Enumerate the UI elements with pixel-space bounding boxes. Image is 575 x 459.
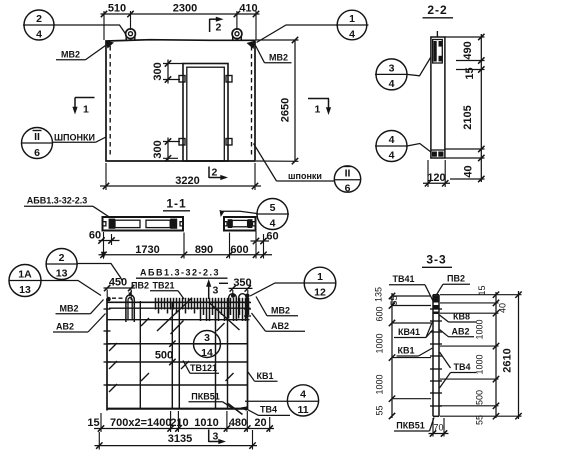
lifting loop left [126,29,136,39]
leader 5/4 [223,211,258,213]
diagonal brace right [209,302,240,330]
door opening [183,64,228,162]
svg-text:450: 450 [109,277,127,289]
svg-text:40: 40 [498,303,508,313]
section 2-2 right dims [480,34,482,182]
rebar cross ticks left edge [104,308,111,310]
left bar end notch [103,222,106,226]
svg-text:1730: 1730 [135,244,159,256]
svg-text:1А: 1А [18,269,32,281]
svg-text:13: 13 [56,268,68,280]
svg-text:АБВ1.3-32-2.3: АБВ1.3-32-2.3 [27,196,88,206]
section mark 1 left [75,97,95,99]
embed plate MB2 top-left corner [106,41,115,49]
svg-text:ШПОНКИ: ШПОНКИ [54,133,95,143]
section 1-1 right bar [224,217,256,231]
section 3-3 right dims [495,292,497,418]
svg-text:60: 60 [266,231,278,243]
svg-text:1: 1 [315,104,321,116]
svg-text:55: 55 [375,405,385,415]
svg-text:ТВ21: ТВ21 [152,281,174,291]
section 3-3 bar body [432,295,434,417]
svg-text:600: 600 [375,306,385,321]
svg-text:1000: 1000 [375,333,385,353]
section 1-1 dimensions [103,232,105,253]
svg-text:1000: 1000 [475,354,485,374]
svg-text:II: II [34,131,40,143]
svg-text:600: 600 [230,244,248,256]
svg-text:11: 11 [297,404,308,416]
section 1-1 left bar [103,217,184,231]
svg-text:300: 300 [152,62,164,80]
svg-text:480: 480 [229,417,247,429]
total dim 3135 [98,432,100,450]
svg-text:КВ1: КВ1 [398,346,415,356]
svg-text:ТВ121: ТВ121 [190,363,217,373]
callout II/6 left with label [22,128,53,159]
cage bottom dims [100,413,102,432]
callout 2/4 [24,10,54,40]
callout 2/13 [46,249,77,280]
svg-text:40: 40 [463,165,475,177]
callout 3/14 [194,331,221,358]
callout 5/4 [257,199,288,230]
svg-text:135: 135 [374,287,384,302]
svg-text:15: 15 [477,285,487,295]
svg-text:ПКВ51: ПКВ51 [191,392,219,402]
dim 300 lower at door [163,141,180,143]
svg-text:1010: 1010 [194,417,218,429]
svg-text:II: II [345,168,351,180]
embed plate MB2 top-right corner [247,41,256,50]
svg-text:ПКВ51: ПКВ51 [396,421,424,431]
svg-text:120: 120 [427,172,445,184]
svg-text:4: 4 [300,389,306,401]
svg-text:510: 510 [108,3,126,15]
svg-text:2: 2 [216,22,222,34]
section 3-3 left dims [391,293,393,418]
svg-text:410: 410 [239,3,257,15]
dim 350 [229,287,253,289]
svg-text:890: 890 [195,244,213,256]
section 2-2 panel body [431,37,445,158]
svg-text:4: 4 [389,78,395,90]
svg-text:6: 6 [345,183,351,195]
svg-text:3135: 3135 [168,433,192,445]
svg-text:ТВ4: ТВ4 [260,405,277,415]
svg-text:2105: 2105 [462,105,474,129]
dim 500 [169,341,175,347]
svg-text:4: 4 [349,29,355,41]
svg-text:60: 60 [89,230,101,242]
svg-text:2650: 2650 [280,98,292,122]
svg-text:АВ2: АВ2 [451,327,469,337]
door hinge mark upper-left [179,76,185,83]
label shponki right with callout II/6 [254,144,277,182]
door hinge mark lower-left [179,139,185,146]
mini dim 60 left [99,240,120,242]
top dimension line 510/2300/410 [101,13,260,15]
diagonal brace left [157,298,192,331]
bar cross ticks [430,309,442,406]
rebar cross ticks right edge [244,302,251,304]
svg-text:3: 3 [213,285,219,297]
shear key dashed line right [251,46,253,158]
svg-text:МВ2: МВ2 [269,53,288,63]
section mark 2 bottom [208,167,210,179]
mesh horizontals [107,343,248,345]
leader 1/4 [257,25,338,43]
svg-text:МВ2: МВ2 [59,304,78,314]
svg-text:ТВ4: ТВ4 [453,362,470,372]
svg-text:ПВ2: ПВ2 [131,281,149,291]
svg-text:КВ1: КВ1 [257,371,274,381]
callout 1/4 [337,10,367,40]
svg-text:2300: 2300 [173,3,197,15]
callout 3/4 [376,59,407,90]
dim 450 [104,287,136,289]
svg-text:5: 5 [270,202,276,214]
svg-text:3220: 3220 [175,175,199,187]
svg-text:55: 55 [389,295,399,305]
svg-text:МВ2: МВ2 [271,306,290,316]
bottom chord [107,408,248,410]
callout 4/11 [287,385,318,416]
svg-text:12: 12 [314,287,326,299]
svg-text:шпонки: шпонки [288,171,322,181]
svg-text:300: 300 [152,140,164,158]
node dots right [231,294,235,298]
section mark 3 top [208,283,210,299]
dim 70 bottom of 3-3 [432,418,434,437]
svg-text:3: 3 [389,63,395,75]
dim 2650 right [256,39,299,41]
bottom embed detail [431,149,445,151]
svg-text:13: 13 [19,284,31,296]
dim 300 upper at door [163,63,183,65]
svg-text:1: 1 [83,104,89,116]
svg-text:4: 4 [36,29,42,41]
hairpin loops right [229,294,237,319]
door hinge mark lower-right [226,139,232,146]
svg-text:15: 15 [87,417,99,429]
svg-text:20: 20 [254,417,266,429]
svg-text:АБВ1.3-32-2.3: АБВ1.3-32-2.3 [140,268,220,278]
svg-text:3: 3 [204,332,210,344]
svg-text:КВ41: КВ41 [398,327,420,337]
node dot left [106,297,111,302]
svg-text:4: 4 [270,218,276,230]
svg-text:55: 55 [475,415,485,425]
svg-text:350: 350 [233,277,251,289]
mini dim 60 right [251,240,270,242]
lifting loop right [232,29,242,39]
svg-text:АВ2: АВ2 [271,321,289,331]
callout 1/12 [304,267,336,299]
svg-text:1-1: 1-1 [166,197,186,211]
loop anchor detail top [433,40,443,64]
svg-text:4: 4 [389,150,395,162]
svg-text:6: 6 [34,147,40,159]
svg-text:14: 14 [201,347,213,359]
leader 2/4 [54,25,126,35]
loop detail top of bar [433,296,440,303]
svg-text:1: 1 [349,13,355,25]
section mark 1 right [308,98,329,100]
svg-text:2: 2 [59,252,65,264]
section mark 2 top [209,19,211,32]
main dim line 1730/890/600 [99,254,273,256]
svg-text:490: 490 [462,41,474,59]
stirrup tick band [156,298,249,321]
section mark 3 bottom [208,430,210,443]
svg-text:2-2: 2-2 [427,3,447,17]
svg-text:МВ2: МВ2 [61,50,80,60]
dim 120 bottom [427,160,429,187]
hairpin loop left [126,295,134,322]
svg-text:500: 500 [155,350,173,362]
callout 1A/13 [9,265,41,297]
svg-text:210: 210 [170,417,188,429]
door hinge mark upper-right [226,76,232,83]
callout 4/4 [376,131,407,162]
svg-text:КВ8: КВ8 [453,312,470,322]
svg-text:АВ2: АВ2 [56,322,74,332]
shear key dashed line left [109,46,111,158]
svg-text:3-3: 3-3 [426,253,446,267]
svg-text:700х2=1400: 700х2=1400 [110,417,171,429]
svg-text:2610: 2610 [502,348,514,372]
svg-text:ТВ41: ТВ41 [392,274,414,284]
svg-text:4: 4 [389,134,395,146]
dim 3220 bottom [105,163,107,190]
svg-text:3: 3 [213,431,219,443]
svg-text:1000: 1000 [375,374,385,394]
svg-text:500: 500 [475,390,485,405]
svg-text:15: 15 [464,67,476,79]
svg-text:2: 2 [36,13,42,25]
svg-text:70: 70 [433,423,443,433]
svg-text:2: 2 [212,167,218,179]
panel outline [106,40,255,161]
svg-text:1: 1 [317,271,323,283]
bend marks [109,343,117,351]
mesh verticals [106,299,108,411]
cage top chord [107,301,250,303]
svg-text:ПВ2: ПВ2 [447,274,465,284]
